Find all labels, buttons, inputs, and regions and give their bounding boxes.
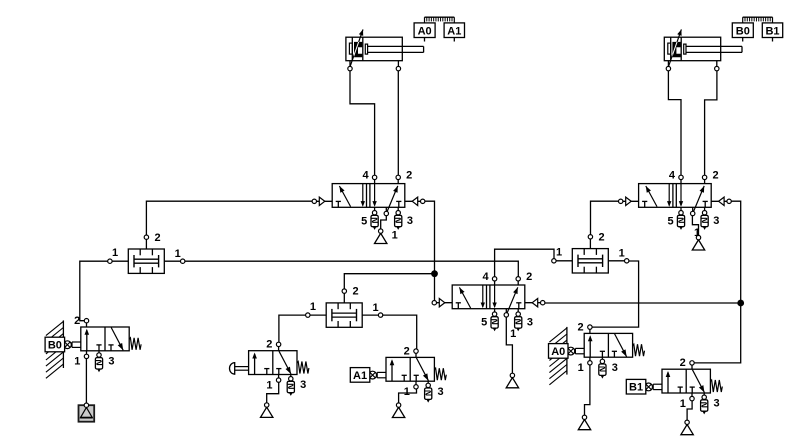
shuttle valve S3 port 1 right [608, 260, 626, 262]
valve V1 right position flows [374, 184, 376, 206]
valve V2 right pilot [711, 200, 729, 202]
valve B0 port 1 [86, 351, 88, 357]
position marker A1 [444, 23, 464, 38]
svg-text:2: 2 [74, 315, 80, 327]
svg-text:1: 1 [74, 356, 80, 368]
svg-text:2: 2 [680, 357, 686, 369]
valve V1 port 5 silencer [374, 207, 376, 212]
svg-text:3: 3 [714, 398, 720, 410]
valve START body [249, 351, 297, 375]
valve A0 port 3 silencer [601, 357, 603, 361]
junction J2 [737, 300, 744, 307]
valve A1 port 2 [415, 351, 417, 357]
valve B0 body [81, 327, 129, 351]
valve V3 left position flows [482, 285, 484, 307]
cylinder B rod flange [684, 44, 686, 54]
wire shuttle S3 port 1 right to valve A0 port 2 [590, 261, 639, 327]
cylinder A rear port [349, 61, 351, 69]
shuttle valve S1 port 2 [145, 237, 147, 249]
wire valve B0 port 1 to supply unit [85, 356, 87, 405]
position marker B0 [732, 23, 753, 38]
supply P1 for valve V1 [375, 233, 387, 243]
valve V2 port 2 [704, 177, 706, 183]
svg-text:4: 4 [482, 271, 489, 283]
valve V1 port 2 [397, 177, 399, 183]
shuttle valve S2 port 2 [343, 291, 345, 303]
svg-text:2: 2 [352, 286, 358, 298]
svg-text:2: 2 [578, 321, 584, 333]
wire valve V2 right pilot to valve B1 port 2 [692, 201, 741, 363]
wire push-button valve port 1 to supply P4 [267, 380, 279, 405]
cylinder A cushioning seal [349, 43, 352, 54]
svg-text:2: 2 [713, 170, 719, 182]
svg-text:A0: A0 [418, 25, 432, 37]
valve START port 1 [278, 375, 280, 381]
svg-text:1: 1 [175, 248, 181, 260]
valve B0 return spring [129, 338, 141, 350]
svg-text:1: 1 [392, 230, 398, 242]
shuttle valve S3 body [572, 249, 608, 273]
distance ruler B0/B1 scale [743, 16, 773, 18]
supply P7 for valve B1 [681, 425, 693, 435]
svg-text:2: 2 [155, 232, 161, 244]
shuttle valve S1 port 1 left [110, 260, 128, 262]
valve A1 port 3 silencer [427, 381, 429, 385]
wall for limit switch A0 [549, 328, 567, 342]
junction J1 [431, 270, 438, 277]
svg-text:2: 2 [266, 339, 272, 351]
wire cylinder B front port to valve V2 port 2 [705, 69, 717, 178]
cylinder A rod flange [365, 44, 367, 54]
svg-text:1: 1 [510, 328, 516, 340]
shuttle valve S2 port 1 right [362, 314, 380, 316]
svg-text:3: 3 [438, 386, 444, 398]
valve V1 port 1 [385, 207, 387, 213]
svg-text:3: 3 [612, 362, 618, 374]
svg-text:1: 1 [578, 362, 584, 374]
valve B0 port 2 [86, 321, 88, 327]
valve V1 port 3 silencer [397, 207, 399, 212]
valve B0 roller actuator [72, 341, 81, 343]
valve V3 port 2 [517, 279, 519, 285]
wire valve B1 port 1 to supply P7 [687, 399, 692, 423]
valve A0 body [584, 333, 632, 357]
valve V2 left position flows [668, 184, 670, 206]
valve B1 port 3 silencer [703, 393, 705, 397]
valve V3 port 3 silencer [517, 309, 519, 314]
valve V1 right pilot [405, 200, 423, 202]
valve A0 roller actuator [575, 347, 584, 349]
svg-text:3: 3 [527, 317, 533, 329]
svg-text:1: 1 [556, 247, 562, 259]
valve V1 left pilot [314, 200, 332, 202]
valve V1 body [332, 184, 405, 208]
wire shuttle S1 port 1 right to valve V3 port 2 [183, 261, 519, 279]
shuttle valve S2 body [326, 303, 362, 327]
cylinder B piston face [680, 37, 682, 61]
svg-text:3: 3 [108, 355, 114, 367]
valve V3 port 1 [505, 309, 507, 315]
valve V3 left pilot [434, 302, 452, 304]
svg-text:4: 4 [362, 170, 369, 182]
valve A1 return spring [434, 368, 446, 380]
valve V2 right position flows [680, 184, 682, 206]
valve V2 port 5 silencer [680, 207, 682, 212]
wire cylinder A rear port to valve V1 port 4 [350, 69, 375, 178]
svg-text:B0: B0 [48, 340, 62, 352]
valve A1 label box [350, 368, 370, 383]
valve A0 label box [549, 344, 569, 359]
valve V1 left position flows [362, 184, 364, 206]
valve B1 port 1 [691, 393, 693, 399]
svg-text:1: 1 [694, 227, 700, 239]
svg-text:B0: B0 [736, 25, 750, 37]
valve V3 right position flows [494, 285, 496, 307]
svg-text:A1: A1 [353, 370, 367, 382]
wire shuttle S1 port 1 left to valve B0 port 2 [80, 261, 110, 321]
supply P5 for valve A1 [392, 407, 404, 417]
svg-text:3: 3 [407, 215, 413, 227]
wall for limit switch B0 [46, 321, 64, 335]
cylinder A front port [397, 61, 399, 69]
svg-text:1: 1 [680, 398, 686, 410]
svg-text:2: 2 [526, 271, 532, 283]
valve A1 roller actuator [377, 371, 386, 373]
valve B1 port 2 [691, 363, 693, 369]
cylinder A cushion adjust arrow [359, 29, 363, 35]
wire valve A0 port 1 to supply P6 [585, 364, 590, 418]
svg-text:B1: B1 [629, 382, 643, 394]
valve V1 port 4 [374, 177, 376, 183]
shuttle valve S2 port 1 left [308, 314, 326, 316]
svg-text:4: 4 [669, 170, 676, 182]
valve V2 port 4 [680, 177, 682, 183]
wire shuttle S2 port 1 left to push-button valve port 2 [279, 315, 308, 344]
cylinder A barrel [346, 37, 402, 61]
valve A1 body [386, 357, 434, 381]
svg-text:1: 1 [266, 379, 272, 391]
shuttle valve S3 port 1 left [554, 260, 572, 262]
shuttle valve S1 body [128, 249, 164, 273]
svg-text:5: 5 [481, 317, 487, 329]
svg-text:A0: A0 [551, 346, 565, 358]
svg-text:5: 5 [668, 215, 674, 227]
wire valve V2 port 1 to supply P2 [692, 214, 698, 238]
valve B1 body [662, 369, 710, 393]
position marker B1 [762, 23, 782, 38]
shuttle valve S1 port 1 right [164, 260, 182, 262]
svg-text:2: 2 [404, 345, 410, 357]
wire shuttle S2 port 1 right to valve A1 port 2 [381, 315, 417, 351]
valve START port 2 [278, 344, 280, 350]
position marker A0 [414, 23, 435, 38]
valve B0 port 3 silencer [98, 351, 100, 355]
supply P6 for valve A0 [578, 420, 590, 430]
cylinder B barrel [664, 37, 720, 61]
svg-text:3: 3 [713, 215, 719, 227]
wire cylinder B rear port to valve V2 port 4 [668, 69, 681, 178]
valve V2 body [639, 184, 712, 208]
svg-text:1: 1 [310, 301, 316, 313]
valve START port 3 silencer [290, 375, 292, 379]
wire shuttle S3 port 2 to valve V2 left pilot [591, 201, 621, 237]
shuttle valve S3 port 2 [589, 237, 591, 249]
wire valve V1 right pilot to valve V3 left pilot [423, 201, 435, 302]
cylinder B cushioning seal [668, 43, 671, 54]
valve B0 label box [45, 337, 65, 352]
valve A0 port 1 [589, 357, 591, 363]
valve B1 label box [626, 379, 646, 394]
supply P2 for valve V2 [692, 240, 704, 250]
svg-text:2: 2 [599, 231, 605, 243]
svg-text:5: 5 [361, 215, 367, 227]
cylinder A piston rod [368, 45, 424, 47]
wire valve V3 port 1 to supply P3 [506, 315, 512, 375]
svg-text:3: 3 [300, 379, 306, 391]
wire valve V3 port 4 to shuttle S3 port 1 left [495, 249, 554, 279]
valve V2 left pilot [621, 200, 639, 202]
wire junction J2 to valve V3 right pilot [543, 302, 741, 304]
valve V3 port 5 silencer [494, 309, 496, 314]
valve A1 port 1 [415, 381, 417, 387]
svg-text:2: 2 [406, 170, 412, 182]
cylinder B cushion adjust arrow [677, 29, 681, 35]
cylinder A piston with magnet [350, 29, 363, 66]
valve V2 port 3 silencer [704, 207, 706, 212]
valve B1 roller actuator [653, 383, 662, 385]
valve V3 port 4 [494, 279, 496, 285]
valve V3 body [452, 285, 525, 309]
distance ruler A0/A1 scale [425, 16, 455, 18]
wire shuttle S1 port 2 to valve V1 left pilot [146, 201, 314, 237]
valve V2 port 1 [692, 207, 694, 213]
wire junction J1 to shuttle S2 port 2 [344, 274, 434, 292]
svg-text:B1: B1 [765, 25, 779, 37]
valve A0 return spring [633, 344, 645, 356]
compressed air supply unit [79, 405, 95, 422]
valve B1 return spring [710, 380, 722, 392]
cylinder A piston face [362, 37, 364, 61]
cylinder B piston with magnet [668, 29, 681, 66]
svg-text:1: 1 [112, 247, 118, 259]
svg-text:1: 1 [404, 386, 410, 398]
supply P3 for valve V3 [506, 378, 518, 388]
valve START return spring [297, 362, 309, 374]
cylinder B rear port [667, 61, 669, 69]
svg-text:1: 1 [373, 302, 379, 314]
supply P4 for push-button valve [261, 407, 273, 417]
svg-text:1: 1 [619, 248, 625, 260]
valve V3 right pilot [525, 302, 543, 304]
valve A0 port 2 [589, 327, 591, 333]
wire cylinder A front port to valve V1 port 2 [397, 69, 399, 178]
svg-text:A1: A1 [447, 25, 461, 37]
push button actuator [235, 366, 249, 368]
cylinder B piston rod [686, 45, 742, 47]
wire valve V1 port 1 to supply P1 [381, 214, 387, 232]
wire valve A1 port 1 to supply P5 [399, 387, 417, 405]
cylinder B front port [716, 61, 718, 69]
